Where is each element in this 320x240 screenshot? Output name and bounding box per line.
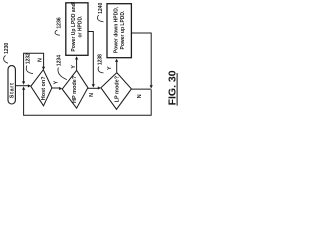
svg-text:HP mode?: HP mode? — [72, 75, 78, 103]
decision 1238 LP mode? — [101, 73, 131, 110]
svg-text:Power Up LPDD and/: Power Up LPDD and/ — [71, 1, 77, 51]
svg-text:1232: 1232 — [25, 53, 31, 64]
node 1230 label — [4, 43, 10, 54]
svg-text:LP mode?: LP mode? — [115, 75, 121, 102]
wire return from bottom — [24, 89, 152, 115]
label N from 1238 — [137, 94, 143, 98]
svg-text:or HPDD.: or HPDD. — [78, 15, 84, 38]
wire 1234 to 1238 — [88, 87, 98, 89]
svg-text:Power down HPDD,: Power down HPDD, — [114, 6, 120, 53]
svg-text:1234: 1234 — [57, 55, 63, 66]
wire 1236 return to 1238 input — [88, 32, 93, 85]
wire 1232 to 1234 — [52, 87, 59, 89]
svg-text:Host on?: Host on? — [41, 76, 47, 100]
wire 1240 return down right side — [131, 33, 151, 86]
decision 1232 Host on? — [31, 70, 52, 106]
svg-text:1236: 1236 — [56, 17, 62, 28]
wire 1238 Y up to box 1240 — [116, 62, 118, 73]
svg-text:FIG. 30: FIG. 30 — [166, 70, 178, 105]
svg-text:Power up LPDD.: Power up LPDD. — [120, 10, 126, 50]
label Y from 1238 — [107, 66, 113, 70]
svg-text:Y: Y — [54, 80, 60, 84]
decision 1234 HP mode? — [62, 70, 88, 108]
node 1234 label — [57, 55, 63, 66]
figure title FIG. 30 — [166, 70, 178, 105]
node 1238 label — [97, 54, 103, 65]
leader for 1230 — [4, 56, 8, 64]
node 1232 label — [25, 53, 31, 64]
svg-text:1238: 1238 — [97, 54, 103, 65]
svg-text:Start: Start — [10, 82, 16, 98]
label N for 1232 — [37, 58, 43, 62]
leader for 1236 — [55, 30, 60, 35]
svg-text:N: N — [37, 58, 43, 62]
leader for 1238 — [98, 67, 103, 73]
label N from 1234 — [89, 93, 95, 97]
wire 1234 Y up to box 1236 — [76, 59, 78, 70]
svg-text:N: N — [89, 93, 95, 97]
label Y from 1232 — [54, 80, 60, 84]
svg-text:1230: 1230 — [4, 43, 10, 54]
process box 1240 — [107, 4, 131, 58]
node 1240 label — [98, 3, 104, 14]
wire start to decision 1232 — [15, 85, 28, 87]
wire 1238 N to right return — [131, 88, 151, 90]
svg-text:1240: 1240 — [98, 3, 104, 14]
leader for 1234 — [58, 68, 67, 80]
svg-text:N: N — [137, 94, 143, 98]
node 1236 label — [56, 17, 62, 28]
leader for 1240 — [97, 15, 103, 22]
process box 1236 — [66, 3, 88, 56]
leader for 1232 — [26, 66, 33, 74]
svg-text:Y: Y — [71, 65, 77, 69]
label Y from 1234 — [71, 65, 77, 69]
start terminal Start — [8, 66, 15, 104]
svg-text:Y: Y — [107, 66, 113, 70]
wire N-loop top-left — [24, 53, 44, 82]
